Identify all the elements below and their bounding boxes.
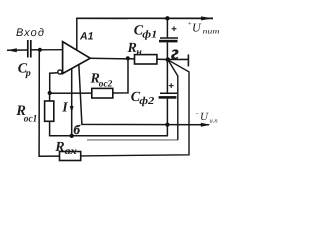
svg-text:ф1: ф1	[142, 29, 157, 40]
resistor Rос1	[45, 101, 54, 121]
slanted wire node г to middle drop	[168, 60, 178, 139]
wire Rос1 top lead	[49, 93, 51, 101]
op-amp A1 triangle	[63, 42, 91, 74]
top rail +U	[76, 17, 213, 19]
svg-text:A1: A1	[79, 30, 94, 42]
svg-text:R: R	[127, 41, 137, 56]
common rail (node б rail)	[50, 135, 168, 137]
node output feedback dot	[126, 56, 130, 60]
svg-text:и.п: и.п	[210, 118, 218, 125]
op-amp negative supply pin wire with current I	[71, 68, 73, 135]
capacitor Cф2 (electrolytic)	[159, 60, 177, 136]
capacitor Cр	[28, 40, 31, 58]
wire op-amp output to Rн	[90, 57, 135, 60]
wire capacitor to input node	[31, 49, 40, 51]
plus mark of Cф1	[172, 26, 177, 31]
svg-text:I: I	[61, 101, 68, 116]
svg-text:U: U	[200, 111, 209, 123]
svg-text:г: г	[171, 42, 178, 64]
top rail arrow head	[201, 16, 213, 20]
op-amp minus supply pin down to -U line	[79, 64, 209, 125]
label +Uпит	[188, 21, 220, 36]
wire Rн to node г	[157, 58, 168, 60]
wire input vertical rail down to Rвх	[39, 50, 59, 156]
inverting input circle	[58, 70, 62, 74]
capacitor Cф1 (electrolytic)	[159, 18, 178, 59]
wire feedback node to Rос2	[50, 92, 92, 94]
label -Uи.п	[195, 111, 218, 125]
node top rail dot	[165, 16, 169, 20]
node: input junction dot	[38, 48, 42, 52]
node -U line dot at Cф2 column	[165, 123, 169, 127]
slanted wire node г to right drop	[81, 60, 189, 156]
plus mark of Cф2	[169, 83, 174, 88]
svg-text:U: U	[192, 21, 202, 35]
wire Rос2 right lead up to output	[113, 58, 128, 93]
svg-text:вх: вх	[65, 146, 78, 157]
wire inverting input to feedback node	[50, 73, 58, 93]
node feedback junction dot	[48, 91, 52, 95]
resistor Rос2	[92, 88, 113, 98]
wire Rос1 bottom lead to common rail	[50, 121, 72, 135]
node г junction dot	[166, 57, 171, 62]
wire input node to op-amp non-inverting input	[40, 49, 63, 51]
svg-text:Вход: Вход	[16, 27, 44, 39]
chassis terminal bar right of node г	[168, 54, 189, 66]
svg-text:ф2: ф2	[139, 96, 155, 107]
svg-text:н: н	[136, 47, 142, 58]
resistor Rвх	[60, 152, 81, 161]
svg-text:−: −	[195, 111, 199, 118]
input terminal arrow	[7, 48, 27, 52]
svg-text:ос1: ос1	[24, 113, 38, 124]
svg-text:пит: пит	[203, 28, 220, 36]
resistor Rн	[135, 55, 157, 64]
-U line arrow head	[201, 123, 211, 127]
svg-text:б: б	[74, 122, 81, 137]
svg-text:R: R	[54, 140, 64, 155]
node б junction dot	[70, 134, 74, 138]
current I arrow head	[70, 106, 74, 113]
wire faint lower link to middle drop	[87, 139, 178, 141]
op-amp positive supply pin (to top rail)	[76, 18, 78, 50]
svg-text:p: p	[25, 68, 31, 79]
